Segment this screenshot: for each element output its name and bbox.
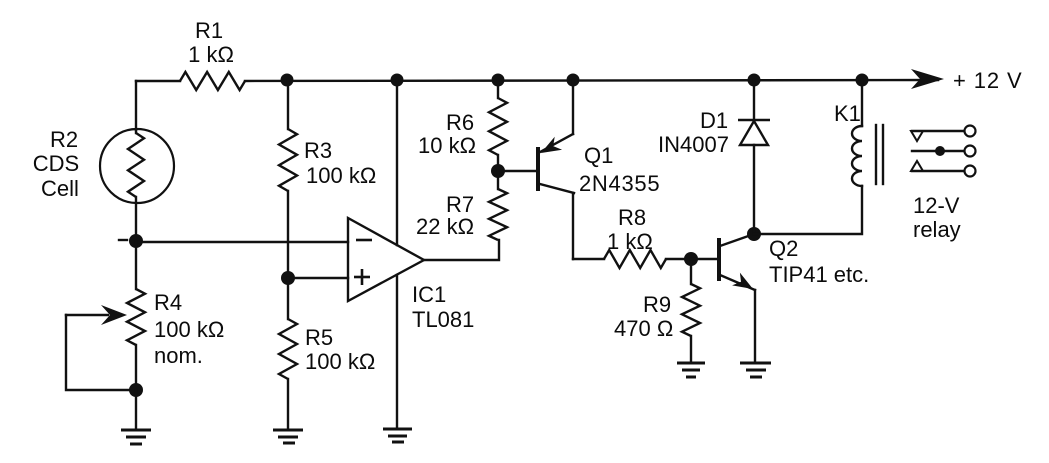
svg-text:100 kΩ: 100 kΩ xyxy=(306,163,376,188)
node: R4 bottom / wiper junction xyxy=(129,383,143,397)
node: R1-R3 rail junction xyxy=(281,74,294,87)
node: R3-R5 non-inverting junction xyxy=(281,271,295,285)
svg-text:470 Ω: 470 Ω xyxy=(614,316,673,341)
svg-text:R4: R4 xyxy=(154,290,182,315)
relay coil K1 xyxy=(852,125,883,186)
svg-text:R8: R8 xyxy=(618,205,646,230)
wire: R9 to ground xyxy=(690,336,692,362)
resistor R5 xyxy=(279,319,297,379)
svg-text:22 kΩ: 22 kΩ xyxy=(416,214,474,239)
wire: rail to D1 cathode xyxy=(753,80,755,120)
wire: rail to R6 xyxy=(497,80,499,98)
svg-text:relay: relay xyxy=(913,217,961,242)
wire: K1 coil bottom to collector node xyxy=(754,186,862,234)
wire: junction to Q1 base xyxy=(498,170,537,172)
tick mark left of node xyxy=(119,239,127,241)
wire: rail to K1 coil xyxy=(861,80,863,126)
wire: op-amp V- to ground xyxy=(396,275,398,428)
svg-text:1 kΩ: 1 kΩ xyxy=(607,229,653,254)
wire: R8 to Q2 base node xyxy=(666,258,691,260)
resistor R7 xyxy=(489,189,507,240)
R4 wiper arrow xyxy=(66,305,136,390)
wire: node down to R5 xyxy=(287,278,289,319)
relay contact: top (NC) xyxy=(911,126,976,142)
node: R2-R4 junction xyxy=(129,234,143,248)
wire: op-amp output to R7 bottom xyxy=(424,240,499,260)
svg-text:K1: K1 xyxy=(834,101,861,126)
svg-text:R9: R9 xyxy=(643,292,671,317)
svg-text:100 kΩ: 100 kΩ xyxy=(154,317,224,342)
node: R6 rail junction xyxy=(492,74,505,87)
wire: D1 anode to collector node xyxy=(753,145,755,234)
svg-text:12-V: 12-V xyxy=(913,193,960,218)
svg-text:10 kΩ: 10 kΩ xyxy=(418,133,476,158)
resistor R8 xyxy=(604,250,666,268)
wire: +12V supply rail xyxy=(136,80,180,82)
node: R6-R7-Q1 base junction xyxy=(491,164,505,178)
node: K1 rail junction xyxy=(856,74,869,87)
svg-text:R3: R3 xyxy=(304,138,332,163)
svg-text:Q2: Q2 xyxy=(769,236,798,261)
wire: R6 to junction xyxy=(497,155,499,171)
wire: junction down to R7 xyxy=(497,171,499,189)
resistor R9 xyxy=(682,284,700,336)
svg-text:TIP41 etc.: TIP41 etc. xyxy=(769,262,869,287)
svg-text:CDS: CDS xyxy=(33,151,79,176)
resistor R1 xyxy=(180,72,245,90)
svg-text:D1: D1 xyxy=(700,108,728,133)
photocell R2 (CDS cell) xyxy=(100,129,174,241)
node: Q2 collector / D1 / K1 junction xyxy=(747,227,761,241)
wire: node down to R4 xyxy=(135,241,137,289)
wire: R2/R4 node to op-amp inverting input xyxy=(136,241,348,243)
svg-text:R6: R6 xyxy=(446,110,474,135)
wire: R3 to non-inverting node xyxy=(287,191,289,278)
resistor R6 xyxy=(489,98,507,155)
wire: node down to R9 xyxy=(690,259,692,284)
svg-text:Q1: Q1 xyxy=(584,143,613,168)
svg-text:R2: R2 xyxy=(50,127,78,152)
wire: R4 to ground xyxy=(135,390,137,429)
transistor Q2 (NPN TIP41) xyxy=(719,234,755,362)
wire: rail to R3 xyxy=(287,80,289,129)
wire: left branch down from rail xyxy=(135,81,137,130)
wire: node to op-amp non-inverting input xyxy=(288,277,348,279)
transistor Q1 (PNP 2N4355) xyxy=(538,80,574,259)
svg-text:2N4355: 2N4355 xyxy=(579,171,660,196)
node: Q1 emitter rail junction xyxy=(567,74,580,87)
node: D1 rail junction xyxy=(748,74,761,87)
node: op-amp V+ rail junction xyxy=(391,74,404,87)
svg-text:IC1: IC1 xyxy=(412,282,446,307)
svg-text:TL081: TL081 xyxy=(412,307,474,332)
power arrow +12V xyxy=(911,69,944,89)
svg-text:IN4007: IN4007 xyxy=(658,132,729,157)
svg-text:R5: R5 xyxy=(305,325,333,350)
op-amp IC1 TL081 xyxy=(348,218,424,301)
relay contact: common (wiper) xyxy=(912,146,976,157)
ground (R4) xyxy=(121,430,151,444)
wire: op-amp V+ from rail xyxy=(396,80,398,245)
svg-text:Cell: Cell xyxy=(41,176,79,201)
ground (Q2 emitter) xyxy=(740,363,771,377)
svg-text:1 kΩ: 1 kΩ xyxy=(188,42,234,67)
wire: Q1 collector to R8 xyxy=(573,258,604,260)
diode D1 (IN4007) xyxy=(738,120,770,145)
ground (R9) xyxy=(677,363,705,377)
potentiometer R4 xyxy=(127,289,145,390)
wire: R5 to ground xyxy=(287,379,289,429)
svg-text:+ 12 V: + 12 V xyxy=(953,68,1023,93)
wire: node to Q2 base xyxy=(691,258,718,260)
relay contact: bottom (NO) xyxy=(911,161,976,177)
ground (IC1) xyxy=(383,429,412,442)
ground (R5) xyxy=(273,430,303,443)
node: R8-R9-Q2 base junction xyxy=(684,252,698,266)
svg-text:R1: R1 xyxy=(195,18,223,43)
svg-text:nom.: nom. xyxy=(154,343,203,368)
resistor R3 xyxy=(279,129,297,191)
svg-text:100 kΩ: 100 kΩ xyxy=(305,349,375,374)
